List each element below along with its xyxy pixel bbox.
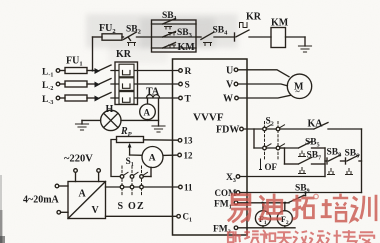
svg-text:A: A: [79, 189, 87, 200]
svg-text:H: H: [106, 104, 114, 115]
svg-text:U: U: [226, 65, 233, 76]
svg-text:KM: KM: [271, 18, 289, 29]
svg-text:13: 13: [184, 136, 194, 146]
svg-text:A: A: [149, 154, 156, 164]
svg-text:~220V: ~220V: [64, 154, 93, 165]
svg-text:O: O: [128, 201, 136, 212]
svg-text:S: S: [185, 81, 190, 91]
svg-text:KR: KR: [246, 12, 262, 23]
svg-text:FDW: FDW: [216, 125, 239, 136]
svg-text:A: A: [144, 107, 151, 117]
svg-text:V: V: [226, 80, 234, 91]
svg-text:R: R: [185, 67, 192, 77]
svg-text:4~20mA: 4~20mA: [23, 195, 60, 206]
svg-text:OF: OF: [265, 162, 278, 172]
svg-text:T: T: [185, 95, 192, 105]
svg-text:W: W: [223, 94, 233, 105]
svg-text:KR: KR: [116, 49, 132, 60]
svg-text:KM: KM: [178, 42, 196, 53]
svg-text:V: V: [92, 205, 100, 216]
svg-text:12: 12: [184, 151, 194, 161]
svg-text:Z: Z: [137, 201, 144, 212]
svg-text:11: 11: [184, 183, 193, 193]
svg-text:S: S: [118, 201, 124, 212]
svg-text:TA: TA: [146, 87, 160, 98]
svg-text:KA: KA: [308, 119, 324, 130]
svg-text:VVVF: VVVF: [193, 112, 224, 124]
